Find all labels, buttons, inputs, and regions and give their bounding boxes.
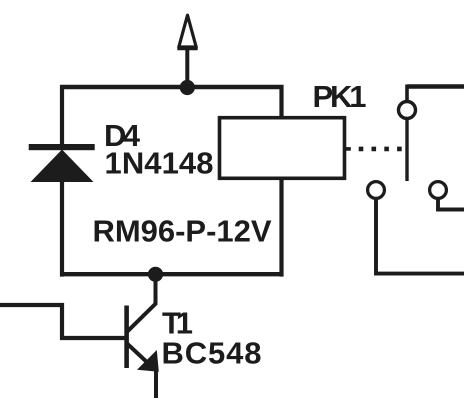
svg-text:RM96-P-12V: RM96-P-12V bbox=[93, 214, 272, 249]
wire: diode cathode lead bbox=[60, 85, 64, 146]
switch common contact circle bbox=[399, 102, 416, 119]
wire: coil bottom pin bbox=[279, 178, 283, 277]
transistor T1 emitter bbox=[127, 344, 150, 366]
diode D4 bbox=[29, 144, 95, 182]
junction dot (collector node) bbox=[148, 267, 163, 282]
mechanical link (dotted line) bbox=[359, 147, 402, 152]
wire: base input bbox=[0, 305, 127, 338]
svg-text:PK1: PK1 bbox=[313, 79, 367, 114]
wire: diode anode lead bbox=[60, 180, 64, 277]
transistor T1 base bar bbox=[124, 306, 129, 369]
wire: switch common (top right) bbox=[407, 84, 464, 88]
transistor T1 emitter arrowhead bbox=[137, 350, 159, 372]
wire: bottom rail bbox=[60, 272, 284, 276]
transistor T1 collector bbox=[127, 276, 156, 332]
switch pole (moving contact) bbox=[405, 118, 408, 181]
svg-text:1N4148: 1N4148 bbox=[105, 146, 214, 181]
relay coil PK1 bbox=[220, 118, 345, 179]
wire: coil top pin bbox=[279, 85, 283, 118]
wire: emitter lead bbox=[154, 370, 158, 398]
wire: arrow stem bbox=[185, 50, 189, 88]
power supply arrow bbox=[179, 15, 196, 47]
wire: right contact lead bbox=[438, 198, 464, 210]
svg-text:BC548: BC548 bbox=[162, 336, 262, 371]
switch contact circle (left) bbox=[368, 182, 385, 199]
junction dot (supply node) bbox=[180, 80, 195, 95]
wire: top rail bbox=[60, 85, 284, 89]
wire: left contact lead bbox=[376, 198, 464, 274]
switch contact circle (right) bbox=[430, 182, 447, 199]
coil actuator stub bbox=[344, 147, 351, 151]
wire: common contact lead bbox=[405, 85, 409, 101]
